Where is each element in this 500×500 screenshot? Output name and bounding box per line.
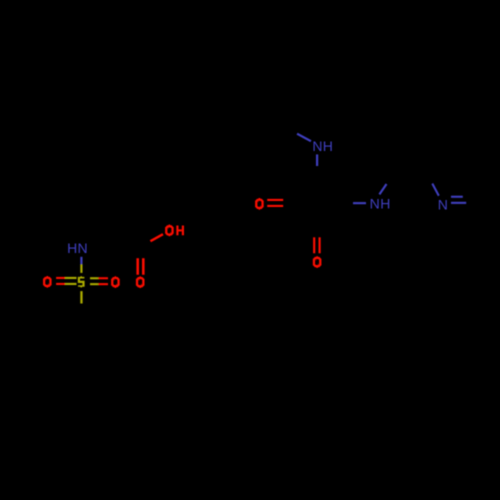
ring C=O left double bond, O half [267, 199, 283, 207]
svg-text:N: N [370, 196, 380, 212]
oxygen O3 label (carboxyl carbonyl O) [136, 276, 145, 288]
svg-text:N: N [438, 196, 448, 212]
hydroxyl label OH [165, 225, 184, 237]
oxygen O2 label (right sulfonyl O) [111, 276, 120, 288]
amine N-H label HN [67, 240, 88, 256]
svg-text:N: N [78, 240, 88, 256]
C=O double bond of carboxyl, O half [136, 258, 144, 275]
oxygen O1 label (left sulfonyl O) [43, 276, 52, 288]
svg-text:H: H [323, 138, 333, 154]
oxygen O4 label (left ring O) [255, 198, 264, 210]
svg-text:H: H [380, 196, 390, 212]
wire C(ring)-NH bond, N half [353, 202, 366, 204]
svg-text:N: N [312, 138, 322, 154]
S=O left double bond, S half [65, 277, 77, 285]
oxygen O5 label (bottom ring O) [313, 256, 322, 268]
sulfur S1 label [78, 276, 85, 287]
wire C-OH bond, O half [150, 233, 164, 242]
wire CH3-N bond, N half [297, 133, 312, 142]
S=O right double bond, O half [98, 277, 108, 285]
amine label NH (right) [370, 196, 391, 212]
ring C=O bottom double bond, O half [313, 237, 321, 253]
pyridine N=C6 double bond, N half [451, 196, 466, 204]
S=O right double bond, S half [90, 277, 98, 285]
S=O left double bond, O half [56, 277, 65, 285]
wire N-S bond, S half [80, 264, 82, 273]
wire NH-CH2 bond, N half [379, 183, 388, 195]
svg-text:H: H [67, 240, 77, 256]
wire N-S bond, N half [80, 257, 82, 265]
wire N-C(ring) bond, N half [316, 154, 318, 166]
amine label NH (top) [312, 138, 333, 154]
wire pyridine C2-N bond, N half [431, 183, 439, 196]
wire S-CH3 bond, S half [80, 291, 82, 303]
